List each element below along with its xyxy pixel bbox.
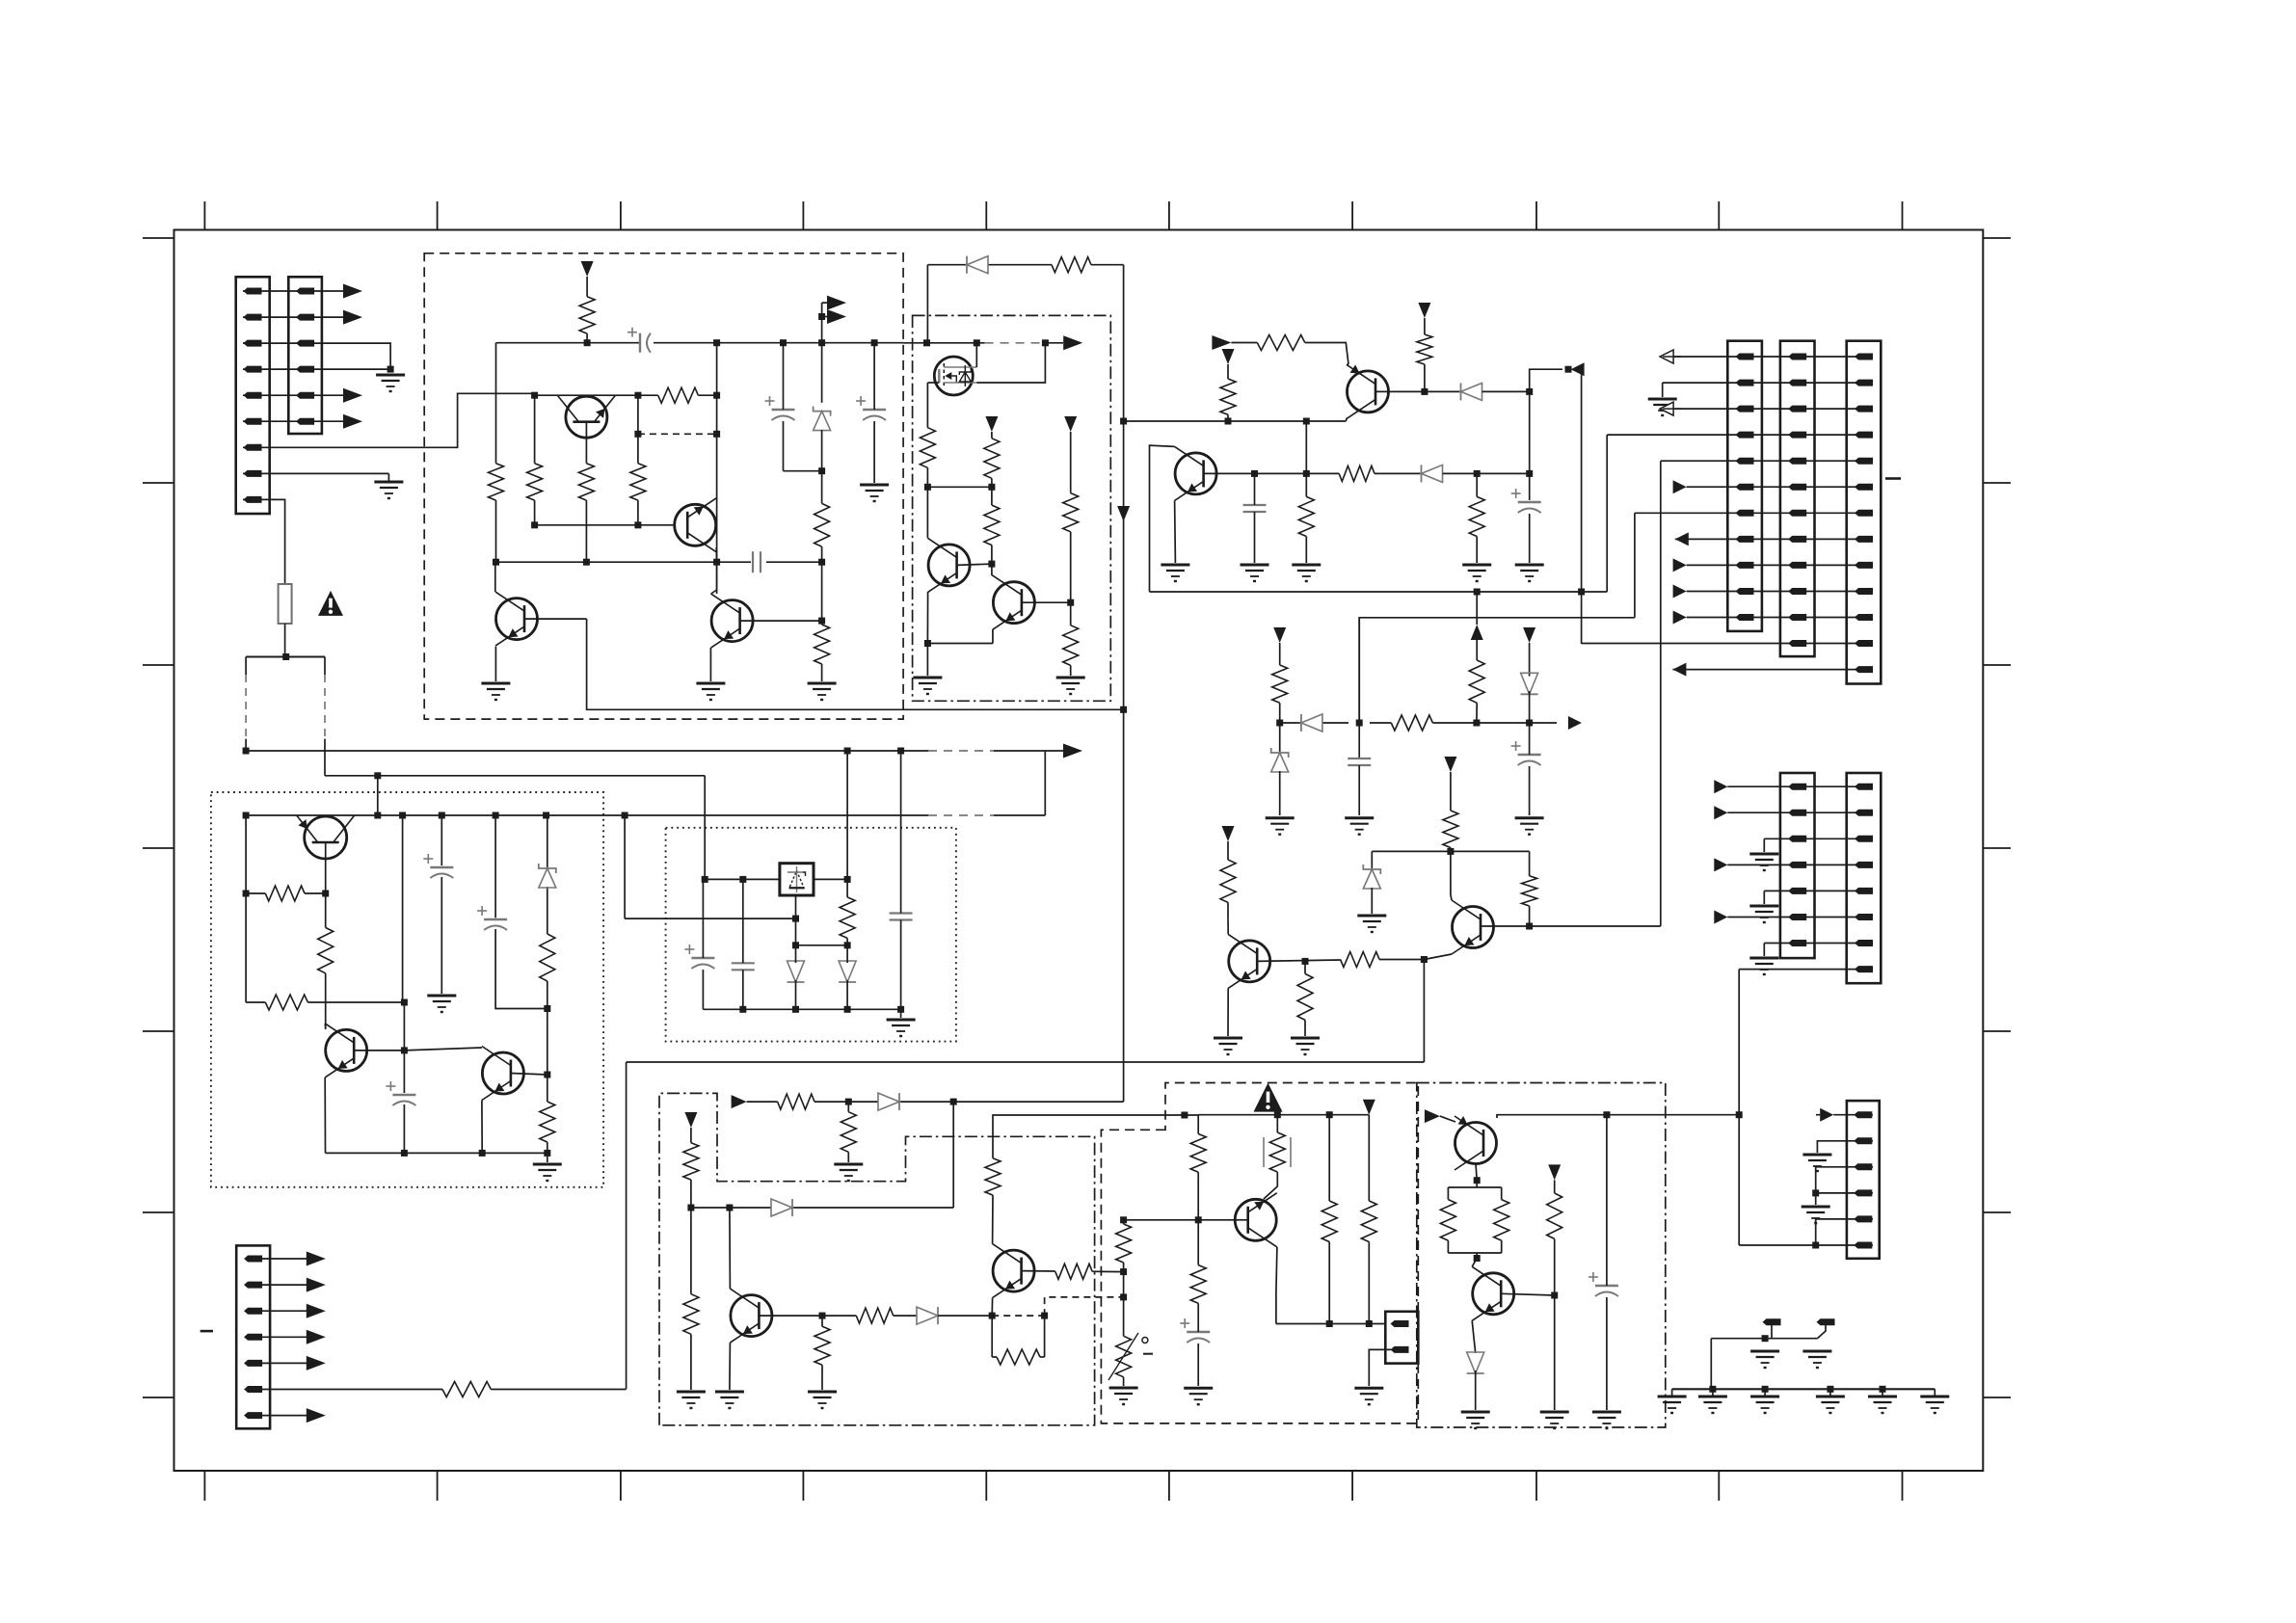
diode D4 xyxy=(1301,714,1322,732)
diode D2 xyxy=(1461,383,1482,400)
junction LV y1265 xyxy=(1120,1216,1127,1223)
wire Q7 base col xyxy=(325,893,327,1029)
wire left drop x514 xyxy=(495,343,497,563)
junction Q4 base xyxy=(818,618,825,625)
wire rail C xyxy=(246,814,1045,816)
wire x1030 drop xyxy=(993,1115,1198,1158)
resistor R32 xyxy=(540,1102,555,1142)
box1 dashed outline xyxy=(424,253,903,719)
connector CN6 pin 1 xyxy=(1855,354,1873,360)
connector CN7 pin 5 xyxy=(1788,888,1806,894)
arrow box2 rail out xyxy=(1063,335,1082,350)
connector CN5 pin 3 xyxy=(1788,406,1806,412)
wire ZD2 gnd xyxy=(1279,771,1281,815)
wire U1 top lead xyxy=(975,343,977,367)
junction rail2 x934 xyxy=(897,1006,904,1013)
connector CN8 pin 4 xyxy=(1855,862,1873,868)
junction x661 y544 xyxy=(634,521,641,528)
ground chain E xyxy=(1868,1389,1897,1413)
wire R11-R12 xyxy=(991,478,993,505)
capacitor C13 xyxy=(732,963,755,970)
connector CN6 pin 9 xyxy=(1855,562,1873,569)
transistor Q13 xyxy=(482,1047,524,1101)
wire rowC4 xyxy=(1816,1192,1873,1194)
ground Q11 xyxy=(1214,1038,1242,1054)
wire col1586b upper xyxy=(1529,643,1531,677)
zener ZD3 xyxy=(1363,865,1380,889)
connector CN2 pin 1 xyxy=(296,288,314,295)
optocoupler U1 xyxy=(934,357,976,395)
ground pin3/4 xyxy=(376,375,405,391)
wire rowB2 xyxy=(1727,811,1873,813)
connector CN1 pin 1 xyxy=(244,288,262,295)
wire row6 xyxy=(1687,486,1873,488)
wire R5 to x743 xyxy=(698,394,716,396)
wire Q15 collector xyxy=(992,1195,994,1244)
connector CN7 pin 3 xyxy=(1788,836,1806,842)
junction x716 y1253 xyxy=(687,1205,694,1211)
junction x1028 y505 xyxy=(988,484,995,491)
junction x1354 y997 xyxy=(1302,958,1309,965)
arrow row9 xyxy=(1673,558,1687,572)
junction rail C x566 xyxy=(543,812,549,819)
connector CN6 xyxy=(1847,341,1882,684)
IC U2 diode symbol xyxy=(788,866,806,892)
wire rail B-C link x391 xyxy=(377,776,379,815)
wire pin stub line xyxy=(1711,1338,1817,1340)
wire CN10 row1 xyxy=(261,1258,307,1260)
wire colA lower xyxy=(690,1208,692,1390)
wire R29 ends xyxy=(246,892,326,894)
junction rowC4 xyxy=(1812,1189,1819,1196)
arrow out pin2 xyxy=(343,310,362,325)
connector CN6 pin 8 xyxy=(1855,536,1873,543)
wire box3 bottom rail xyxy=(326,1152,547,1154)
wire Q3 base to bottom run xyxy=(587,619,1124,709)
minus label left xyxy=(200,1330,213,1333)
resistor R35 xyxy=(841,1112,856,1153)
wire R50 ends xyxy=(1501,1187,1503,1253)
ground R20 xyxy=(1462,565,1491,581)
connector CN6 pin 2 xyxy=(1855,380,1873,386)
capacitor C16 electrolytic xyxy=(1589,1272,1618,1296)
wire col1505 xyxy=(1450,772,1452,811)
wire CN10 row4 xyxy=(261,1336,307,1338)
arrow box1 out upper xyxy=(822,296,846,310)
arrow CN10 row5 xyxy=(307,1356,326,1370)
wire pin8 gnd drop xyxy=(387,473,389,482)
arrow row6 xyxy=(1673,480,1687,493)
junction rail x961 xyxy=(923,339,930,346)
connector CN1 pin 8 xyxy=(244,470,262,477)
resistor R8 xyxy=(814,625,830,664)
ground Q14 xyxy=(715,1392,744,1408)
wire input to R16 xyxy=(1231,342,1257,344)
wire x1586 col mid xyxy=(1529,391,1531,500)
wire R49 ends xyxy=(1447,1187,1449,1253)
connector CN4 pin 10 xyxy=(1736,588,1754,595)
connector CN5 pin 7 xyxy=(1788,510,1806,517)
wire Q14 emitter xyxy=(729,1343,732,1390)
junction rail A x879 xyxy=(844,748,851,755)
ground R18 xyxy=(1292,565,1321,581)
wire Q13 collector link xyxy=(404,1048,482,1051)
junction x1504 y884 xyxy=(1447,848,1454,855)
wire rowB4 xyxy=(1727,864,1873,865)
power arrow col B xyxy=(985,416,998,432)
arrow row10 xyxy=(1673,585,1687,599)
wire row10 xyxy=(1687,591,1873,593)
wire rowC5 xyxy=(1816,1219,1873,1245)
connector CN1 pin 7 xyxy=(244,444,262,451)
wire Q18 emitter xyxy=(1472,1320,1476,1353)
wire col1666 xyxy=(1606,1115,1608,1410)
connector CN9 pin 1 xyxy=(1854,1111,1872,1118)
wire rowB6 xyxy=(1727,917,1873,918)
connector CN1 pin 4 xyxy=(244,366,262,373)
connector CN2 pin 4 xyxy=(296,366,314,373)
connector CN10 pin 7 xyxy=(244,1412,262,1419)
junction x1327 y750 xyxy=(1276,720,1283,727)
resistor R4 xyxy=(527,464,543,500)
wire base line Q1 xyxy=(535,394,638,396)
wire Q15 emitter xyxy=(991,1298,993,1317)
wire D3 to x1586 xyxy=(1443,472,1530,474)
resistor R28 horiz xyxy=(1341,952,1380,968)
resistor R26 xyxy=(1220,860,1236,902)
resistor R30 xyxy=(318,928,334,973)
ground R8 xyxy=(808,683,837,700)
wire col1612 mid xyxy=(1554,1238,1556,1410)
wire rowC2 xyxy=(1817,1141,1873,1153)
ground col1666 xyxy=(1592,1412,1621,1428)
junction arrow node xyxy=(1565,366,1572,373)
junction x419 y1040 xyxy=(401,999,408,1006)
wire R24 to 884 xyxy=(1450,848,1452,852)
wire rowC4 gnd xyxy=(1815,1193,1817,1205)
wire ZD3 gnd xyxy=(1371,888,1373,914)
capacitor C15 electrolytic xyxy=(1180,1318,1210,1343)
connector CN4 pin 8 xyxy=(1736,536,1754,543)
wire rowC3 xyxy=(1816,1167,1873,1193)
junction x962 y505 xyxy=(924,484,931,491)
junction x1531 y750 xyxy=(1473,720,1480,727)
power arrow box4 colA xyxy=(684,1112,697,1128)
junction x554 y544 xyxy=(531,521,538,528)
connector CN2 pin 2 xyxy=(296,314,314,321)
junction rail2 x825 xyxy=(792,1006,799,1013)
diode D1 xyxy=(967,256,988,274)
junction x1586 y961 xyxy=(1526,923,1533,930)
connector CN5 pin 10 xyxy=(1788,588,1806,595)
wire row1 xyxy=(1673,356,1873,358)
wire D2 to x1586 xyxy=(1482,390,1530,392)
junction x880 y1143 xyxy=(845,1099,852,1105)
connector CN10 pin 2 xyxy=(244,1282,262,1289)
resistor R50 xyxy=(1494,1200,1509,1241)
wire row2 xyxy=(1663,382,1873,384)
wire Q7 base down xyxy=(325,842,327,893)
wire x989 drop xyxy=(952,1102,954,1208)
wire C12 col xyxy=(702,879,704,1009)
junction rail x609 xyxy=(584,339,591,346)
capacitor C4 electrolytic xyxy=(856,396,886,420)
junction x879 y980 xyxy=(844,942,851,948)
wire Q17 out top xyxy=(1497,1115,1739,1118)
ground chain F xyxy=(1920,1389,1949,1413)
wire Q9 base right xyxy=(1204,472,1340,474)
junction rail C x255 xyxy=(243,812,250,819)
wire rail A-C link xyxy=(1044,751,1046,815)
wire pin1 drop xyxy=(1771,1325,1773,1339)
wire Q9 collector xyxy=(1150,445,1175,592)
ground rowB7 xyxy=(1749,958,1778,974)
connector CN6 pin 10 xyxy=(1855,588,1873,595)
junction rail2 x770 xyxy=(739,1006,746,1013)
arrow out pin1 xyxy=(343,284,362,299)
wire rowB3 gnd xyxy=(1763,838,1765,852)
transistor Q7 xyxy=(297,815,355,859)
fusible resistor R45 xyxy=(1264,1132,1291,1172)
wire line A left drop xyxy=(626,1062,627,1389)
warning triangle near fuse xyxy=(318,591,343,616)
transistor Q5 xyxy=(928,538,971,592)
junction rail C x458 xyxy=(439,812,445,819)
arrow row8 out xyxy=(1675,532,1689,545)
resistor R20 xyxy=(1469,496,1484,536)
connector CN9 pin 6 xyxy=(1854,1242,1872,1249)
connector CN9 pin 3 xyxy=(1854,1163,1872,1170)
transistor Q1 xyxy=(557,395,615,438)
wire col1612 upper xyxy=(1554,1180,1556,1193)
wire rowC6 xyxy=(1739,1244,1873,1246)
junction x1477 y406 xyxy=(1421,388,1428,395)
connector CN2 pin 3 xyxy=(296,340,314,347)
wire R17 to y406 xyxy=(1424,364,1426,391)
ground C6 xyxy=(1515,565,1544,581)
junction chain2 xyxy=(1762,1386,1769,1393)
diode D8 xyxy=(878,1093,899,1110)
box3b dotted outline xyxy=(666,828,956,1042)
wire rail C dashed gap xyxy=(928,814,994,816)
wire R35 ends xyxy=(847,1102,849,1162)
wire 884 left drop xyxy=(1371,851,1373,871)
wire D5 to line xyxy=(1529,691,1531,723)
connector CN5 pin 4 xyxy=(1788,432,1806,439)
wire Q4 base right xyxy=(740,620,822,622)
junction rail x812 xyxy=(780,339,787,346)
connector CN5 pin 6 xyxy=(1788,484,1806,491)
resistor R43 horiz xyxy=(997,1349,1040,1365)
junction x853 y1365 xyxy=(819,1313,826,1319)
resistor R9 horiz xyxy=(1052,257,1091,273)
connector CN9 pin 4 xyxy=(1854,1189,1872,1196)
junction x1029 y1365 xyxy=(989,1313,996,1319)
wire Q5 gnd xyxy=(926,644,928,677)
wire Q8 base right xyxy=(1375,390,1425,392)
junction rail583 x743 xyxy=(713,559,720,566)
junction rail C x514 xyxy=(493,812,499,819)
ground R14 xyxy=(1056,678,1085,694)
bottom border tick marks xyxy=(204,1471,1902,1501)
wire R21 to diode line xyxy=(1476,703,1478,723)
ground ZD2 xyxy=(1266,818,1295,835)
resistor R41 xyxy=(985,1158,1001,1195)
wire Q12 base link xyxy=(354,1050,404,1051)
wire col567 upper xyxy=(547,815,548,934)
wire Q4 collector up xyxy=(711,562,717,594)
wire line A xyxy=(627,1061,1425,1063)
arrow out pin6 xyxy=(343,414,362,429)
junction x255 y927 xyxy=(243,891,250,897)
connector CN1 pin 9 xyxy=(244,496,262,503)
wire rail B drop to IC xyxy=(704,776,706,880)
connector CN6 pin 13 xyxy=(1855,666,1873,673)
wire IC right xyxy=(814,878,847,880)
resistor R15 xyxy=(1220,379,1236,414)
minus label right xyxy=(1885,477,1901,480)
wire R28 to x1477 xyxy=(1379,959,1424,961)
box4 dash-dot outline xyxy=(659,1093,1095,1424)
wire box1 rail583 xyxy=(496,561,822,563)
resistor R40 on LV xyxy=(1116,1220,1132,1263)
connector CN4 pin 7 xyxy=(1736,510,1754,517)
wire col1410 xyxy=(1358,618,1360,758)
IC U2 box xyxy=(780,864,814,895)
drawing frame border xyxy=(174,230,1984,1472)
wire CN1 pin6 out xyxy=(243,420,343,422)
wire Q3 base right xyxy=(524,618,587,620)
pin stub 2 xyxy=(1817,1318,1835,1325)
junction x1532 y1305 xyxy=(1474,1255,1481,1262)
wire Q15 base right xyxy=(1022,1270,1055,1272)
connector CN4 pin 2 xyxy=(1736,380,1754,386)
wire y980 link xyxy=(796,945,848,946)
connector CN7 xyxy=(1780,773,1815,958)
diode D7 xyxy=(839,961,856,982)
wire LV to thermistor xyxy=(1123,1297,1125,1336)
wire rowC1 xyxy=(1816,1114,1873,1116)
wire R38 ends xyxy=(821,1316,823,1390)
wire pin2 drop xyxy=(1817,1325,1826,1339)
wire Q17 down xyxy=(1476,1164,1477,1181)
wire Q8 emitter in xyxy=(1347,363,1348,365)
zener ZD4 xyxy=(539,864,556,888)
transistor Q2 xyxy=(675,498,717,552)
resistor R2 xyxy=(489,464,504,500)
ground C10 xyxy=(427,996,456,1012)
diode D3 xyxy=(1422,465,1443,482)
ground Q5 xyxy=(913,678,942,694)
wire x852 col upper xyxy=(821,303,823,403)
wire box2 rail dashed xyxy=(985,342,1044,344)
connector CN4 pin 5 xyxy=(1736,458,1754,465)
power arrow box5 right xyxy=(1363,1100,1375,1115)
wire col458 xyxy=(441,815,442,994)
wire CN10 row3 xyxy=(261,1310,307,1312)
wire D6 col xyxy=(795,945,797,1010)
resistor R34 horiz xyxy=(778,1094,814,1109)
junction x1586 y406 xyxy=(1526,388,1533,395)
wire vcc to R1 xyxy=(586,277,588,297)
junction x1028 y585 xyxy=(988,561,995,568)
diode D9 xyxy=(771,1199,792,1216)
connector CN8 pin 6 xyxy=(1855,914,1873,920)
wire col1327 upper xyxy=(1279,643,1281,665)
power arrow col1274b xyxy=(1222,826,1235,841)
wire Q3 emitter gnd xyxy=(494,647,496,681)
zener ZD1 xyxy=(814,407,831,431)
junction x1355 y491 xyxy=(1303,470,1310,477)
wire C6 gnd xyxy=(1529,514,1531,563)
resistor R11 xyxy=(984,439,1000,479)
connector CN5 pin 2 xyxy=(1788,380,1806,386)
wire CN10 row6 long xyxy=(261,1389,627,1391)
junction rail x1083 xyxy=(1042,339,1049,346)
wire rowB7 xyxy=(1764,943,1873,945)
ground CN3 xyxy=(1354,1388,1383,1404)
ground TH1 xyxy=(1109,1388,1138,1404)
arrow CN10 row4 xyxy=(307,1330,326,1344)
wire x743 col xyxy=(716,343,718,594)
transistor Q14 xyxy=(730,1289,772,1343)
wire LV2 vertical xyxy=(1581,369,1583,644)
junction x989 y1143 xyxy=(950,1099,957,1105)
junction x1110 y625 xyxy=(1067,599,1074,606)
resistor R52 horiz xyxy=(442,1382,491,1397)
junction x1379 y1373 xyxy=(1326,1320,1333,1327)
ground Q18 xyxy=(1461,1412,1490,1428)
wire rail B xyxy=(325,775,705,777)
wire x812 col xyxy=(784,343,822,471)
ground C4 xyxy=(860,485,889,501)
connector CN5 pin 12 xyxy=(1788,640,1806,647)
capacitor C8 electrolytic xyxy=(1511,741,1541,765)
resistor R39 horiz xyxy=(856,1308,893,1323)
connector CN10 pin 6 xyxy=(244,1386,262,1393)
wire CN1 pin5 out xyxy=(243,394,343,396)
wire x1477 drop xyxy=(1423,960,1425,1063)
resistor R22 xyxy=(1272,665,1288,703)
connector CN5 pin 8 xyxy=(1788,536,1806,543)
resistor R23 horiz xyxy=(1391,715,1432,731)
ground C7 xyxy=(1345,818,1374,835)
ground chain B xyxy=(1698,1389,1727,1413)
power arrow col C xyxy=(1064,416,1077,432)
resistor R48 xyxy=(1190,1265,1206,1304)
wire D11 gnd xyxy=(1475,1370,1477,1410)
wire top line left drop xyxy=(926,265,928,343)
connector CN8 pin 7 xyxy=(1855,940,1873,946)
wire R16 to Q8 xyxy=(1305,343,1348,365)
junction LV y437 xyxy=(1120,418,1127,425)
resistor R3 xyxy=(578,464,594,500)
junction rail x1015 xyxy=(974,339,980,346)
transistor Q16 xyxy=(1235,1193,1277,1247)
right border tick marks xyxy=(1983,238,2011,1397)
junction pin3/4 xyxy=(387,366,394,373)
connector CN4 pin 1 xyxy=(1736,354,1754,360)
wire gate col xyxy=(926,383,928,428)
wire rail C to IC drop xyxy=(624,815,626,918)
wire CN1 pin1 out xyxy=(243,290,343,292)
wire 884 right drop xyxy=(1529,851,1531,875)
junction rail x743 xyxy=(713,339,720,346)
wire R25 to emitter line xyxy=(1529,906,1531,926)
connector CN8 xyxy=(1847,773,1882,983)
wire LV to 1319 xyxy=(1123,1263,1125,1297)
junction rail x852 xyxy=(818,339,825,346)
